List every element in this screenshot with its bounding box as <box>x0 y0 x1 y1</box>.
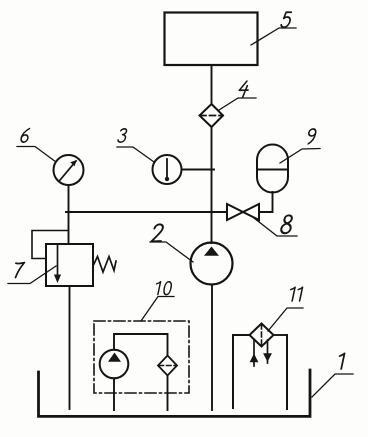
relief valve 7 spring <box>93 257 116 273</box>
label 1 <box>337 353 345 369</box>
wire: left shoulder of 11 <box>233 334 250 336</box>
heat exchanger 11 dashed vertical <box>261 324 263 346</box>
leader line for label 7 <box>8 266 56 284</box>
leader line for label 3 <box>117 147 154 162</box>
leader line for label 4 <box>219 98 256 110</box>
label 6 <box>20 129 30 143</box>
leader line for label 2 <box>150 242 193 262</box>
wire: valve 7 drain to tank <box>69 286 71 409</box>
label 9 <box>306 129 316 144</box>
label 10 <box>154 282 172 295</box>
leader line for label 1 <box>312 374 353 397</box>
leader line for label 11 <box>268 308 303 331</box>
gauge 3 stem <box>166 159 168 180</box>
wire: aux pump to tank <box>113 378 115 410</box>
tank 1 <box>39 370 311 416</box>
filter F1 (4) diamond <box>200 104 224 127</box>
pump 2 triangle <box>204 247 219 256</box>
wire: pump 2 down to tank <box>211 285 213 411</box>
wire: junction to valve 8, horizontal main <box>66 211 227 213</box>
wire: left wall down to tank <box>232 335 234 408</box>
relief valve 7 body <box>46 244 93 286</box>
leader line for label 9 <box>280 149 320 164</box>
label 3 <box>118 129 128 142</box>
wire: accumulator 9 to valve 8 <box>259 192 273 212</box>
wire: gauge 6 down to junction <box>68 185 70 212</box>
heat exchanger 11 diamond <box>250 324 274 347</box>
filter element dashed in 10 <box>159 365 176 367</box>
relief valve 7 pilot line <box>32 231 69 259</box>
label 11 <box>288 287 302 301</box>
aux pump triangle <box>108 353 121 362</box>
shutoff valve 8 (bowtie) <box>227 204 259 220</box>
label 8 <box>280 215 293 233</box>
wire: right shoulder of 11 <box>274 334 288 336</box>
leader line for label 10 <box>141 297 174 322</box>
flow arrow up under 11 <box>253 340 255 366</box>
label 4 <box>238 81 250 97</box>
relief valve 7 inner line + arrow <box>57 244 59 277</box>
label 7 <box>13 263 24 278</box>
auxiliary pump in 10 <box>100 350 129 379</box>
wire: gauge 3 to main line <box>182 169 215 171</box>
leader line for label 5 <box>251 28 296 45</box>
pressure gauge 6 <box>54 155 84 185</box>
leader line for label 6 <box>17 147 56 163</box>
accumulator 9 <box>257 145 288 193</box>
wire: filter 10 to tank <box>167 376 169 411</box>
accumulator 9 divider <box>257 169 288 171</box>
gauge 6 needle <box>60 161 76 180</box>
filter diamond in 10 <box>158 356 177 376</box>
leader line for label 8 <box>254 218 297 236</box>
pump 2 <box>191 243 233 285</box>
wire: box 5 to filter 4 <box>211 65 213 104</box>
wire: right wall down to tank <box>286 335 288 409</box>
label 2 <box>151 224 164 241</box>
wire: junction down into valve 7 <box>68 212 70 244</box>
temperature gauge 3 <box>153 155 182 184</box>
wire: filter 4 to pump 2 <box>211 127 213 243</box>
enclosure 10 (dash-dot box) <box>94 321 189 393</box>
box 5 (drive unit) <box>165 13 258 66</box>
wire: aux pump to filter (U shape) <box>114 334 168 356</box>
label 5 <box>281 12 292 27</box>
filter 4 element dashed <box>200 115 223 117</box>
flow arrow down under 11 <box>267 340 269 363</box>
